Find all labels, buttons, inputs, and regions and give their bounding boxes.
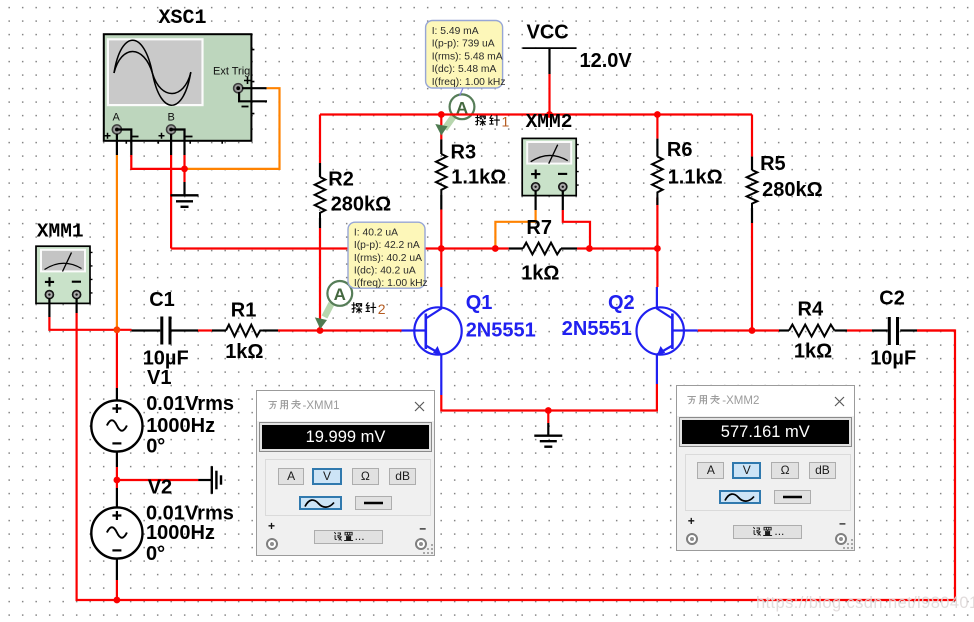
wire V1 bottom to V2 top [116,467,118,488]
resistor R5 zigzag [747,170,758,208]
svg-text:I(freq): 1.00 kHz: I(freq): 1.00 kHz [354,278,428,289]
junction base node [317,327,324,334]
svg-text:1kΩ: 1kΩ [225,341,263,363]
wire R6 bottom [656,198,658,249]
wire C1 to R1 [198,329,212,331]
resistor R6 zigzag [652,157,663,198]
probe box 1 (current readout) [426,21,506,97]
svg-text:I(rms): 40.2 uA: I(rms): 40.2 uA [354,253,422,264]
ground (V2, rotated) [212,466,221,494]
probe 2 circle (under wires) [325,281,353,317]
capacitor C2 [889,317,897,345]
pin C1 left [132,329,161,331]
svg-text:12.0V: 12.0V [580,50,633,72]
wire V2 bottom to bottom bus [116,580,118,600]
svg-text:1kΩ: 1kΩ [521,262,559,284]
pin R7 right [561,247,577,249]
wire XMM1 - pin [75,298,77,313]
pin R2 top [319,163,321,177]
junction V1/V2 ground node [114,477,121,484]
junction R7 right [586,245,593,252]
svg-text:1000Hz: 1000Hz [146,415,215,437]
svg-text:280kΩ: 280kΩ [331,194,392,216]
svg-text:C1: C1 [149,289,175,311]
svg-text:R5: R5 [760,153,786,175]
svg-text:V2: V2 [148,477,172,499]
pin V1 bottom [116,451,118,467]
svg-text:XMM1: XMM1 [37,221,84,243]
pin R7 left [509,247,523,249]
probe box 2 (current readout) [348,222,428,289]
wire scope A+ pin [116,134,118,155]
wire XMM2 - pin [562,191,564,210]
svg-text:1: 1 [502,113,510,129]
wire base node to Q1 base [320,329,402,331]
wire VCC top bus [320,113,752,115]
svg-text:0°: 0° [146,543,165,565]
capacitor C1 [162,317,170,345]
svg-text:XSC1: XSC1 [159,7,207,30]
svg-text:I(p-p): 42.2 nA: I(p-p): 42.2 nA [354,240,420,251]
svg-text:I(dc): 5.48 mA: I(dc): 5.48 mA [432,64,497,75]
wire left rail from XMM1 - to bottom bus and right rail to C2 [77,313,955,600]
svg-text:1.1kΩ: 1.1kΩ [668,167,723,189]
svg-text:1kΩ: 1kΩ [794,340,832,362]
wire R2 top [319,115,321,164]
pin C2 left [872,329,888,331]
wire scope A- to junction [131,155,184,169]
svg-text:I(p-p): 739 uA: I(p-p): 739 uA [432,39,495,50]
AC source V2 [91,507,142,558]
wire VCC drop [548,74,550,115]
wire XMM2 - to R7 right node [563,210,590,249]
junction R6 top bus [654,111,661,118]
svg-text:2N5551: 2N5551 [466,320,536,342]
wire input node down to V1 [116,330,118,388]
svg-text:I: 5.49 mA: I: 5.49 mA [432,26,479,37]
pin V2 bottom [116,558,118,580]
svg-text:1.1kΩ: 1.1kΩ [451,167,506,189]
wire Ext Trig + pin [242,87,267,89]
pin V1 top [116,388,118,401]
pin R2 bottom [319,218,321,228]
svg-text:C2: C2 [879,288,905,310]
wire scope B+ down to collector bus [170,155,172,249]
wire R6 top [656,115,658,139]
svg-text:0°: 0° [146,436,165,458]
resistor R2 zigzag [315,177,326,218]
ground (scope) [171,195,199,207]
svg-text:I(rms): 5.48 mA: I(rms): 5.48 mA [432,51,503,62]
wire bus corner down to R5 [751,115,753,157]
svg-text:B: B [168,112,175,124]
svg-text:R1: R1 [231,300,257,322]
multimeter dialog XMM1 [256,390,435,556]
wire scope B- to junction and ground [183,155,185,182]
wire R3 bottom to Q1 collector [440,210,442,288]
pin R3 top [440,139,442,154]
pin C2 right [900,329,917,331]
svg-text:R6: R6 [667,139,693,161]
pin R6 bottom [656,198,658,206]
wire R5 bottom to Q2 base node [751,223,753,331]
pin R4 right [835,329,848,331]
svg-text:0.01Vrms: 0.01Vrms [146,393,234,415]
svg-text:10µF: 10µF [870,348,916,370]
svg-text:A: A [334,285,346,304]
multimeter icon XMM2 [522,138,579,195]
probe 2 (current probe A) [315,301,386,329]
svg-text:V1: V1 [147,367,171,389]
svg-text:2: 2 [378,301,386,317]
resistor R3 zigzag [436,154,447,195]
svg-text:R3: R3 [451,141,477,163]
ground emitter (stem) [547,423,549,435]
junction R7 left (orange) [492,245,499,252]
svg-text:A: A [113,112,121,124]
resistor R4 zigzag [789,325,835,337]
wire XMM1 + to input node [49,317,131,330]
svg-text:Ext Trig: Ext Trig [213,66,250,78]
wire V1/V2 node to ground (red part) [117,479,198,481]
pin VCC stem [548,48,550,74]
wire C2 right [917,329,955,331]
pin R4 left [779,329,789,331]
junction R3 bottom / Q1 collector [438,245,445,252]
svg-text:2N5551: 2N5551 [562,318,632,340]
probe 1 (current probe A) [435,113,509,135]
AC source V1 [91,400,142,451]
ground scope (stem) [183,182,185,195]
junction emitter bus ground [545,407,552,414]
wire XMM2 + pin [534,191,536,210]
wire right of R7 to R6 node [577,247,657,249]
svg-text:I(freq): 1.00 kHz: I(freq): 1.00 kHz [432,77,506,88]
wire Ext Trig orange to junction [186,88,280,169]
wire XMM1 + pin [48,298,50,317]
wire R2 bottom to base node [319,228,321,331]
pin R5 bottom [751,208,753,223]
svg-text:I(dc): 40.2 uA: I(dc): 40.2 uA [354,266,416,277]
svg-text:XMM2: XMM2 [526,111,573,133]
pin R1 right [263,329,278,331]
svg-text:VCC: VCC [527,21,569,43]
resistor R1 zigzag [226,325,263,337]
wire R1 to base node [278,329,320,331]
wire Ext Trig - pin stub [239,92,267,101]
multimeter icon XMM1 [36,246,93,303]
junction R6 bottom / Q2 collector [654,245,661,252]
wire Q2 base to R4 [698,329,779,331]
svg-text:R2: R2 [328,169,354,191]
transistor Q1 [402,287,462,395]
svg-text:Q1: Q1 [466,292,493,314]
pin V2 top [116,488,118,508]
svg-text:R4: R4 [798,299,824,321]
wire emitter bus ground stub [547,411,549,424]
junction R3 top bus [438,111,445,118]
transistor Q2 [637,287,698,384]
wire Q2 collector red [656,249,658,288]
junction VCC bus [546,111,553,118]
resistor R7 zigzag [523,243,561,255]
wire R3 top [440,115,442,140]
pin R1 left [212,329,226,331]
wire collector bus left of R7 [171,247,509,249]
watermark [756,594,974,613]
pin C1 right [171,329,198,331]
junction R5 bottom / Q2 base [749,327,756,334]
ground (emitter bus) [534,436,562,447]
junction input node (orange) [114,326,121,333]
wire Q1 emitter to emitter bus [441,384,657,411]
pin R3 bottom [440,195,442,210]
wire XMM2 + orange to R7 left node [495,210,535,249]
wire scope B+ pin [170,134,172,155]
oscilloscope XSC1 [104,34,255,144]
pin R6 top [656,139,658,157]
wire R4 to C2 [847,329,872,331]
multimeter dialog XMM2 [676,385,855,551]
svg-text:R7: R7 [526,217,552,239]
wire scope A- pin [117,130,131,156]
svg-text:280kΩ: 280kΩ [762,179,823,201]
power VCC symbol [523,47,577,49]
svg-text:I: 40.2 uA: I: 40.2 uA [354,227,398,238]
svg-text:1000Hz: 1000Hz [146,522,215,544]
junction scope A-/ExtTrig [181,166,188,173]
wire scope B- pin [171,130,184,156]
svg-text:Q2: Q2 [608,292,635,314]
junction V2 bottom bus [114,597,121,604]
pin R5 top [751,157,753,170]
wire scope A+ to input node (orange) [116,155,118,330]
probe 1 circle (under wires) [445,94,475,129]
ground V2 (black lead) [198,479,211,481]
